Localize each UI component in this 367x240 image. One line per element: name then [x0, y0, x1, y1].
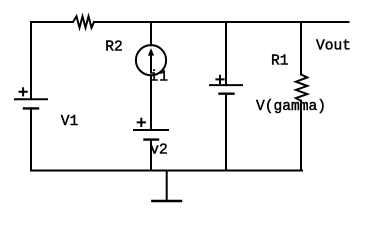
ground stub: [166, 171, 168, 202]
wire V2 to bottom net: [150, 140, 152, 171]
wire V1 negative to bottom net: [30, 108, 32, 170]
wire bottom net: [31, 170, 302, 172]
battery V1 plus sign: [20, 88, 27, 95]
wire top net to R1: [300, 22, 302, 74]
resistor R1: [296, 74, 307, 100]
ground bar: [152, 200, 181, 202]
svg-text:v2: v2: [150, 142, 168, 158]
battery V2 plus sign: [138, 119, 145, 126]
battery V1 positive plate: [15, 98, 47, 100]
svg-text:V(gamma): V(gamma): [256, 99, 326, 115]
resistor R2: [73, 16, 94, 27]
svg-text:V1: V1: [61, 114, 79, 130]
battery V2 positive plate: [134, 129, 168, 131]
battery V2 negative plate: [145, 138, 159, 140]
current source I1 arrow head: [148, 48, 154, 56]
wire top net to I1: [150, 22, 152, 45]
svg-text:Vout: Vout: [316, 39, 351, 55]
svg-text:i1: i1: [150, 70, 170, 86]
wire I1 to V2: [150, 75, 152, 130]
battery V(gamma) plus sign: [216, 76, 223, 83]
wire top net: R2 to Vout terminal: [94, 21, 349, 23]
battery V1 negative plate: [24, 107, 38, 109]
battery V(gamma) positive plate: [210, 84, 242, 86]
current source I1 circle: [136, 45, 166, 75]
wire top net to battery V(gamma): [225, 22, 227, 85]
current source I1 arrow shaft: [150, 55, 152, 73]
wire top net: left corner to R2: [31, 22, 73, 99]
battery V(gamma) negative plate: [220, 92, 234, 94]
svg-text:R2: R2: [105, 40, 123, 56]
svg-text:R1: R1: [271, 54, 289, 70]
wire V(gamma) to bottom net: [225, 94, 227, 171]
wire R1 to bottom net: [300, 101, 302, 171]
